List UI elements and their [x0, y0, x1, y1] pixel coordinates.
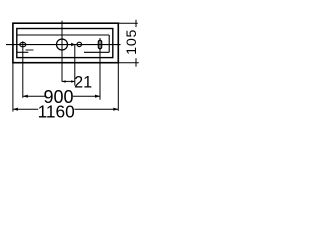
1160 dimension line left segment: [13, 108, 38, 110]
right mounting slot (vertical stadium): [98, 40, 101, 49]
900 left arrowhead: [23, 95, 28, 98]
left socket bracket line: [26, 49, 34, 51]
inner bottom right segment: [84, 51, 109, 53]
right 21 extension line: [74, 44, 76, 86]
105 dimension line bottom stub: [135, 58, 137, 66]
1160 left arrowhead: [13, 108, 18, 111]
horizontal centerline: [6, 44, 121, 46]
1160 right extension line (outer rect right edge extended): [117, 63, 119, 111]
105 top extension line: [118, 22, 137, 24]
1160 right arrowhead: [113, 108, 118, 111]
small pilot hole circle: [77, 42, 81, 46]
21 dimension line: [62, 80, 75, 82]
left mounting oval hole: [20, 42, 26, 46]
vertical center mark + 900 extension line through left oval: [22, 41, 24, 98]
1160 dimension line right segment: [74, 108, 118, 110]
105 dimension line top stub: [135, 20, 137, 27]
105 bottom extension line: [118, 62, 138, 64]
inner bottom left segment: [17, 51, 29, 53]
pointer arrow on centerline: [71, 43, 75, 47]
21 right arrowhead: [71, 80, 75, 82]
inner right end vertical edge: [108, 35, 110, 52]
vertical center mark + 900 extension line through right slot: [99, 38, 101, 100]
21 left arrowhead: [62, 80, 66, 82]
fixture middle rectangle: [17, 29, 113, 58]
svg-text:1160: 1160: [38, 101, 75, 121]
svg-text:105: 105: [124, 29, 140, 55]
900 dimension line left segment: [23, 95, 45, 97]
wiring knockout hole circle: [57, 39, 68, 50]
900 right arrowhead: [95, 95, 100, 98]
900 dimension line right segment: [73, 95, 100, 97]
inner top line across fixture: [17, 34, 109, 36]
1160 left extension line (outer rect left edge extended): [12, 63, 14, 112]
svg-text:21: 21: [74, 73, 92, 91]
fixture outer body rectangle (1160 x 105): [13, 23, 118, 63]
vertical center mark + 21 extension line through knockout circle: [61, 21, 63, 82]
